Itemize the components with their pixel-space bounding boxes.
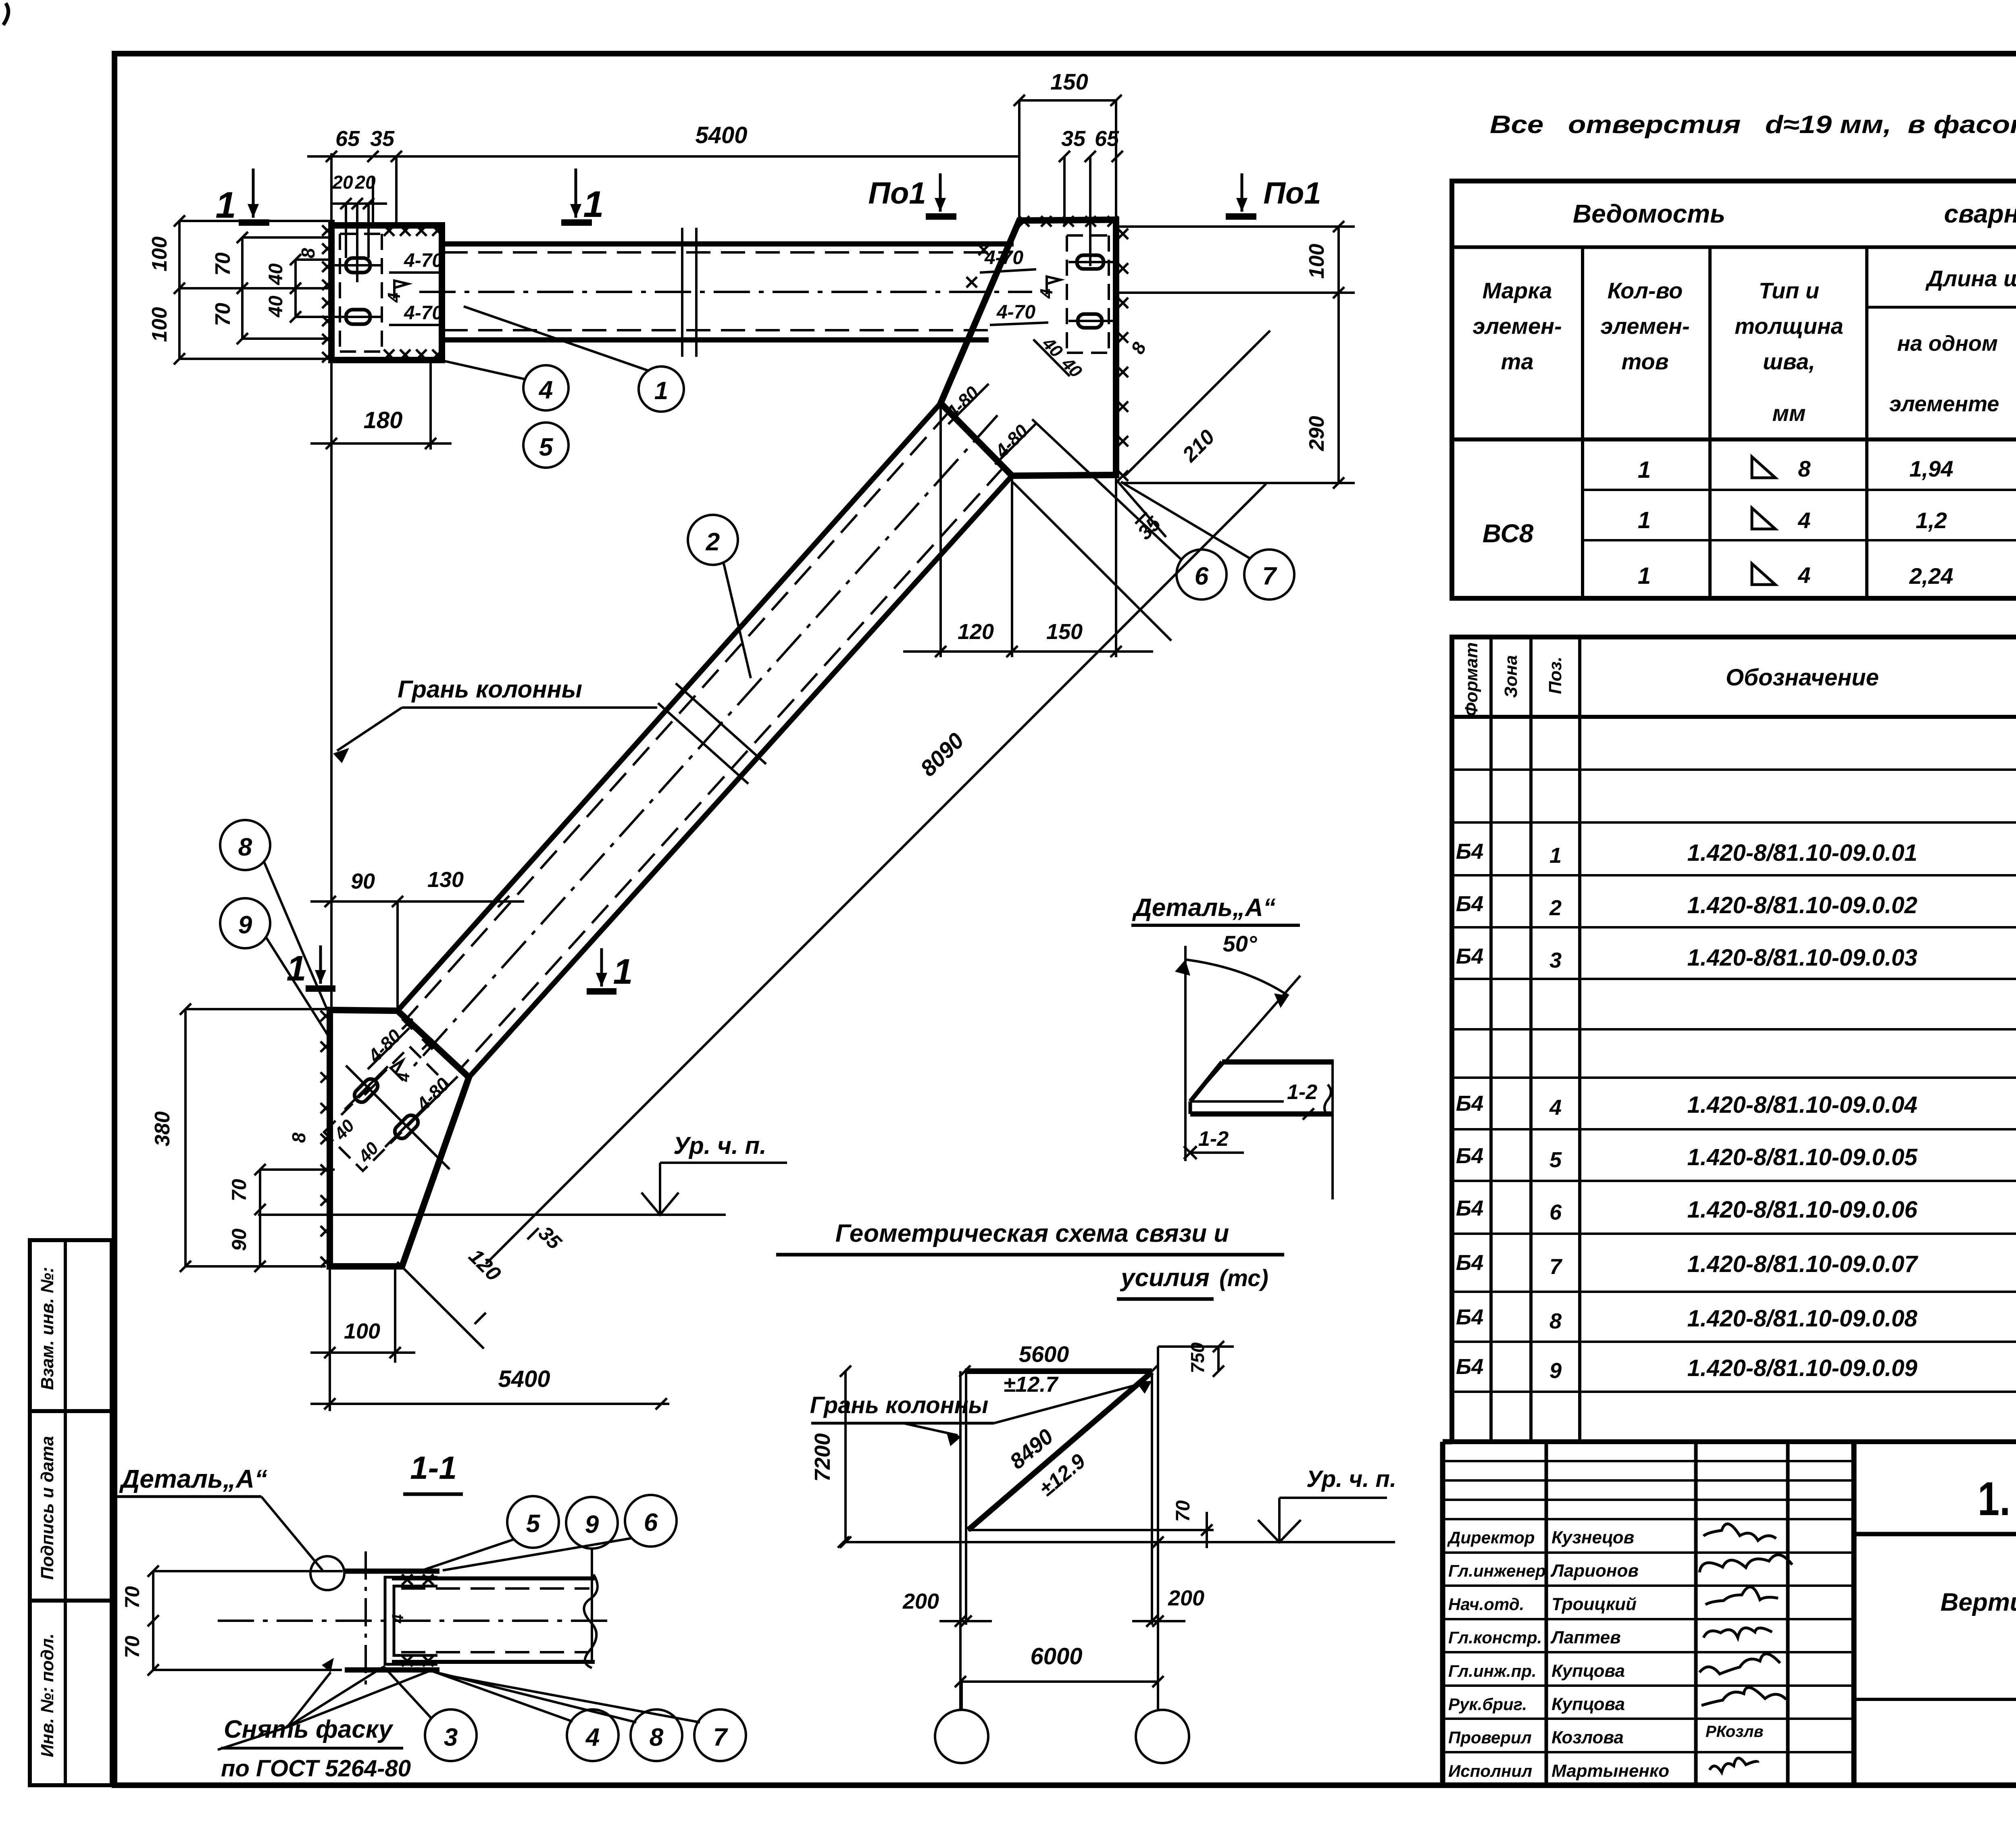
svg-text:90: 90 xyxy=(351,869,375,893)
diagonal member dashed walls xyxy=(406,411,950,1019)
svg-text:мм: мм xyxy=(1772,400,1806,426)
svg-text:4-70: 4-70 xyxy=(404,302,443,324)
svg-text:1: 1 xyxy=(287,948,306,988)
title block outer xyxy=(1443,1442,2016,1785)
detail A root line xyxy=(1184,1153,1187,1161)
column face extension line left xyxy=(330,153,333,1009)
svg-text:Зона: Зона xyxy=(1501,655,1521,698)
section callout circle 3 xyxy=(425,1709,477,1761)
svg-text:100: 100 xyxy=(1305,244,1329,279)
right gusset dashed channel outline xyxy=(1067,234,1109,237)
lower gusset dashed channel outline xyxy=(324,1047,448,1171)
weld marks on end plate xyxy=(322,225,333,236)
svg-text:6: 6 xyxy=(1549,1200,1562,1224)
svg-text:50°: 50° xyxy=(1223,931,1257,956)
weld symbol row1 xyxy=(1752,457,1775,478)
weld table title row line xyxy=(1452,246,2016,249)
svg-text:4: 4 xyxy=(1549,1095,1562,1120)
section 1-1 break mark xyxy=(584,1574,598,1668)
svg-text:Проверил: Проверил xyxy=(1448,1728,1532,1747)
dim 8090 along diagonal xyxy=(486,484,1266,1264)
svg-text:(тс): (тс) xyxy=(1219,1265,1268,1291)
scheme top chord xyxy=(965,1368,1152,1374)
svg-text:5: 5 xyxy=(539,433,554,461)
svg-text:380: 380 xyxy=(151,1112,174,1147)
scheme column lines right xyxy=(1151,1374,1153,1625)
svg-text:Б4: Б4 xyxy=(1456,1355,1483,1379)
end plate slotted holes xyxy=(346,258,370,273)
svg-text:шва,: шва, xyxy=(1763,349,1815,374)
doc number cell xyxy=(1854,1532,2016,1536)
diagonal member centerline xyxy=(412,415,998,1068)
svg-text:Инв. №: подл.: Инв. №: подл. xyxy=(37,1633,57,1757)
svg-text:Б4: Б4 xyxy=(1456,1196,1483,1220)
svg-text:Гл.констр.: Гл.констр. xyxy=(1448,1628,1542,1647)
svg-text:5400: 5400 xyxy=(695,122,747,148)
svg-text:1,2: 1,2 xyxy=(1916,508,1947,533)
section callout circle 5 xyxy=(507,1496,559,1548)
callout circle 6 xyxy=(1177,550,1227,600)
weld label 4 flag right xyxy=(1047,277,1060,294)
dim extension lines right gusset xyxy=(1117,225,1355,228)
end plate detail 4/5 xyxy=(331,225,442,360)
svg-text:4-70: 4-70 xyxy=(984,247,1023,269)
svg-text:1.420-8/81.10-09.0.03: 1.420-8/81.10-09.0.03 xyxy=(1687,945,1918,971)
member 1 centerline xyxy=(419,291,1032,293)
svg-text:1: 1 xyxy=(215,185,236,226)
svg-text:на одном: на одном xyxy=(1897,331,1998,356)
svg-text:По1: По1 xyxy=(1263,176,1321,210)
svg-text:6: 6 xyxy=(1195,562,1209,590)
weld label 4 flag lower xyxy=(391,1058,413,1080)
svg-text:20: 20 xyxy=(354,172,376,193)
svg-text:40: 40 xyxy=(265,296,287,318)
weld table row lines xyxy=(1583,489,2016,491)
svg-text:Все отверстия d≈19 мм, в: Все отверстия d≈19 мм, в фасонках овальн… xyxy=(1490,111,2016,139)
corner scan mark xyxy=(3,3,8,25)
svg-text:35: 35 xyxy=(1061,127,1086,151)
lower gusset slotted holes xyxy=(352,1076,381,1105)
dim 90 130 above lower gusset xyxy=(310,900,524,903)
svg-text:9: 9 xyxy=(238,911,252,939)
svg-text:толщина: толщина xyxy=(1735,313,1843,339)
svg-text:Троицкий: Троицкий xyxy=(1552,1594,1637,1614)
detail A dim 1-2 right xyxy=(1331,1060,1334,1199)
dim 100 below lower gusset xyxy=(329,1266,331,1363)
svg-text:100: 100 xyxy=(148,237,171,272)
dim 5400 bottom xyxy=(329,1363,331,1411)
dim 40 40 left side xyxy=(294,260,297,317)
svg-text:Длина шва , м: Длина шва , м xyxy=(1925,266,2016,291)
dim 210 diagonal xyxy=(1125,331,1270,476)
svg-text:Кузнецов: Кузнецов xyxy=(1552,1528,1634,1547)
dim 40 40 right gusset diagonal xyxy=(1033,339,1070,376)
svg-text:Исполнил: Исполнил xyxy=(1448,1761,1532,1780)
svg-text:3: 3 xyxy=(1549,948,1562,972)
dim 180 below end plate xyxy=(330,360,333,450)
svg-text:7200: 7200 xyxy=(810,1433,835,1482)
dim 70 lower gusset xyxy=(259,1170,261,1210)
callout circle 7 xyxy=(1244,550,1294,600)
callout circle 9 xyxy=(220,898,270,948)
right gusset slotted holes xyxy=(1077,255,1104,269)
svg-text:Б4: Б4 xyxy=(1456,944,1483,968)
svg-text:1: 1 xyxy=(654,377,668,405)
title block upper small rows xyxy=(1443,1460,1854,1462)
name cell line xyxy=(1854,1698,2016,1701)
svg-text:Б4: Б4 xyxy=(1456,1091,1483,1116)
section mark По1 right xyxy=(1226,213,1256,220)
деталь А leader2 on section xyxy=(218,1727,287,1750)
svg-text:Поз.: Поз. xyxy=(1545,656,1565,694)
svg-text:Гл.инженер: Гл.инженер xyxy=(1448,1561,1546,1580)
svg-text:5400: 5400 xyxy=(498,1366,550,1392)
weld table sub-header split xyxy=(1867,306,2016,309)
svg-text:Формат: Формат xyxy=(1462,642,1481,716)
callout circle 8 xyxy=(220,820,270,870)
svg-text:7: 7 xyxy=(1549,1255,1563,1279)
callout circle 5 xyxy=(523,423,569,468)
svg-text:Вертикальная связь: Вертикальная связь xyxy=(1941,1588,2016,1616)
svg-text:ВС8: ВС8 xyxy=(1483,519,1534,548)
section 1-1 tube walls xyxy=(392,1576,595,1580)
gusset plate 8/9 lower xyxy=(330,1010,469,1266)
svg-text:1.420-8/81.10-09.0.01: 1.420-8/81.10-09.0.01 xyxy=(1687,840,1918,866)
svg-text:элемен-: элемен- xyxy=(1472,313,1562,339)
svg-text:1-2: 1-2 xyxy=(1287,1080,1317,1104)
svg-text:Нач.отд.: Нач.отд. xyxy=(1448,1595,1524,1613)
svg-text:8: 8 xyxy=(238,833,252,861)
section callout circle 9 xyxy=(566,1497,618,1549)
svg-text:1: 1 xyxy=(1638,563,1651,589)
svg-text:65: 65 xyxy=(1095,127,1119,151)
svg-text:8: 8 xyxy=(1549,1309,1562,1333)
section 1-1 bottom plate xyxy=(345,1668,439,1673)
detail A drawing plate xyxy=(1222,1060,1334,1065)
svg-text:65: 65 xyxy=(335,127,360,151)
svg-text:6: 6 xyxy=(644,1509,658,1536)
svg-text:1.420-8/81.10-09.0.06: 1.420-8/81.10-09.0.06 xyxy=(1687,1197,1918,1223)
svg-text:4: 4 xyxy=(585,1724,600,1751)
svg-text:4: 4 xyxy=(1037,289,1056,299)
diagonal member 2 walls xyxy=(398,403,941,1011)
svg-text:20: 20 xyxy=(332,172,353,193)
weld table frame xyxy=(1452,181,2016,598)
dim 70 70 left side xyxy=(241,237,244,339)
svg-text:4-70: 4-70 xyxy=(404,250,443,271)
weld table header bottom line xyxy=(1452,437,2016,441)
svg-text:Б4: Б4 xyxy=(1456,839,1483,864)
svg-text:Кол-во: Кол-во xyxy=(1608,278,1683,303)
svg-text:Деталь„А“: Деталь„А“ xyxy=(119,1464,267,1493)
svg-text:8: 8 xyxy=(298,248,319,258)
right gusset corner extension diagonal xyxy=(1013,482,1171,641)
svg-text:5600: 5600 xyxy=(1019,1341,1069,1367)
svg-text:3: 3 xyxy=(444,1724,458,1751)
section 1-1 tube dashed walls xyxy=(401,1587,589,1590)
dim 120 150 below right gusset xyxy=(939,405,942,657)
svg-text:180: 180 xyxy=(364,407,403,433)
svg-text:по ГОСТ 5264-80: по ГОСТ 5264-80 xyxy=(221,1755,411,1782)
svg-text:та: та xyxy=(1501,349,1534,374)
svg-text:35: 35 xyxy=(370,127,395,151)
svg-text:4: 4 xyxy=(1797,562,1810,588)
section callout circle 6 xyxy=(625,1495,677,1547)
svg-text:70: 70 xyxy=(211,252,235,276)
svg-text:70: 70 xyxy=(121,1636,144,1658)
svg-text:1: 1 xyxy=(583,184,604,225)
svg-text:Гл.инж.пр.: Гл.инж.пр. xyxy=(1448,1661,1537,1680)
svg-text:тов: тов xyxy=(1621,349,1668,374)
svg-text:Взам. инв. №:: Взам. инв. №: xyxy=(37,1267,57,1390)
svg-text:150: 150 xyxy=(1046,620,1083,644)
scheme bottom level lines xyxy=(968,1529,1214,1531)
callout circle 4 xyxy=(523,365,569,410)
level line lower xyxy=(258,1214,726,1216)
svg-text:4-70: 4-70 xyxy=(996,302,1035,323)
callout circle 1 xyxy=(639,366,684,412)
svg-text:Ларионов: Ларионов xyxy=(1550,1561,1639,1581)
member 1 dashed inner walls xyxy=(444,251,1010,254)
end plate channel dashed outline xyxy=(340,233,382,235)
svg-text:Купцова: Купцова xyxy=(1552,1661,1625,1681)
weld marks on right gusset xyxy=(1019,216,1029,227)
svg-text:РКозлв: РКозлв xyxy=(1706,1723,1764,1740)
svg-text:элемен-: элемен- xyxy=(1600,313,1689,339)
svg-text:Обозначение: Обозначение xyxy=(1726,664,1879,691)
svg-text:8: 8 xyxy=(1798,456,1811,481)
svg-text:Подпись и дата: Подпись и дата xyxy=(37,1436,57,1580)
svg-text:8: 8 xyxy=(650,1724,664,1751)
dim 380 lower gusset xyxy=(184,1009,187,1266)
svg-text:Ведомость: Ведомость xyxy=(1573,199,1725,228)
scheme diagonal xyxy=(968,1372,1152,1530)
section 1-1 top plate xyxy=(345,1569,439,1574)
svg-text:1.420-8/81.10-09.0.02: 1.420-8/81.10-09.0.02 xyxy=(1687,892,1918,918)
svg-text:1. 4 2 0 — 8/8 1. 1 0 - 0 9. 0: 1. 4 2 0 — 8/8 1. 1 0 - 0 9. 0. 0 0 xyxy=(1978,1472,2016,1526)
dim 120 lower gusset xyxy=(397,1262,484,1349)
svg-text:70: 70 xyxy=(1173,1500,1194,1522)
left stamp boxes xyxy=(30,1240,112,1785)
section 1-1 weld marks xyxy=(402,1574,412,1585)
extension line from left plate right edge xyxy=(395,156,398,226)
svg-text:элементе: элементе xyxy=(1889,392,1999,416)
section callout circle 7 xyxy=(694,1709,746,1761)
dim 90 lower gusset xyxy=(259,1210,261,1266)
svg-text:сварных: сварных xyxy=(1944,199,2016,228)
scheme column lines left xyxy=(959,1371,962,1709)
svg-text:4: 4 xyxy=(1797,508,1810,533)
svg-text:Ур. ч. п.: Ур. ч. п. xyxy=(1306,1466,1396,1492)
section callout circle 8 xyxy=(631,1709,682,1761)
member 1 break marks xyxy=(681,228,683,357)
dim 100 100 left side xyxy=(178,221,181,359)
title block signature row lines xyxy=(1443,1551,1854,1554)
svg-text:Директор: Директор xyxy=(1447,1528,1535,1547)
svg-text:5: 5 xyxy=(526,1510,541,1538)
dim 40 40 lower gusset xyxy=(346,1066,450,1169)
svg-text:Ур. ч. п.: Ур. ч. п. xyxy=(673,1132,766,1159)
снять фаску leaders xyxy=(287,1672,331,1727)
svg-text:70: 70 xyxy=(228,1179,250,1201)
svg-text:4: 4 xyxy=(384,293,404,303)
member 1 tube 140x4 walls xyxy=(442,241,1014,247)
svg-text:290: 290 xyxy=(1305,416,1329,452)
svg-text:4: 4 xyxy=(395,1073,413,1082)
svg-text:1.420-8/81.10-09.0.07: 1.420-8/81.10-09.0.07 xyxy=(1687,1251,1919,1277)
svg-text:1-2: 1-2 xyxy=(1198,1127,1229,1151)
svg-text:Б4: Б4 xyxy=(1456,1144,1483,1168)
svg-text:1: 1 xyxy=(1549,843,1562,868)
scheme dim 7200 xyxy=(844,1371,847,1542)
weld symbol row2 xyxy=(1752,508,1775,529)
svg-text:6000: 6000 xyxy=(1030,1643,1082,1670)
weld symbol row3 xyxy=(1752,564,1775,585)
svg-text:Лаптев: Лаптев xyxy=(1550,1628,1621,1647)
svg-text:±12.7: ±12.7 xyxy=(1004,1372,1059,1397)
parts table row lines xyxy=(1452,768,2016,771)
svg-text:130: 130 xyxy=(427,868,464,892)
svg-text:4: 4 xyxy=(389,1614,407,1624)
svg-text:70: 70 xyxy=(211,303,235,326)
detail A circle on section xyxy=(310,1556,344,1590)
svg-text:Марка: Марка xyxy=(1483,278,1552,303)
svg-text:Рук.бриг.: Рук.бриг. xyxy=(1448,1695,1527,1714)
svg-text:1-1: 1-1 xyxy=(410,1450,457,1486)
svg-text:150: 150 xyxy=(1050,69,1088,94)
scheme column base circles xyxy=(935,1710,988,1763)
svg-text:200: 200 xyxy=(1168,1586,1204,1610)
svg-text:Тип и: Тип и xyxy=(1759,278,1819,303)
svg-text:120: 120 xyxy=(958,620,994,644)
section 1-1 channel xyxy=(385,1577,437,1664)
svg-text:9: 9 xyxy=(1549,1359,1562,1383)
scheme dim 750 xyxy=(1217,1347,1220,1371)
svg-text:5: 5 xyxy=(1549,1148,1562,1172)
svg-text:Купцова: Купцова xyxy=(1552,1695,1625,1714)
section dim 70 70 xyxy=(152,1571,154,1670)
svg-text:70: 70 xyxy=(121,1586,144,1609)
svg-text:По1: По1 xyxy=(868,176,926,210)
svg-text:100: 100 xyxy=(148,307,171,342)
detail A bevel construction lines xyxy=(1184,946,1187,1153)
svg-text:40: 40 xyxy=(265,263,287,285)
weld label 4 flag left xyxy=(394,281,408,298)
svg-text:200: 200 xyxy=(902,1589,939,1613)
svg-text:4: 4 xyxy=(538,376,553,404)
section 1-1 centerlines xyxy=(218,1620,609,1622)
parts table header bottom xyxy=(1452,715,2016,719)
weld table column lines xyxy=(1581,247,1584,598)
diagonal member break marks xyxy=(676,683,766,764)
dim 290 right side xyxy=(1337,293,1340,483)
svg-text:усилия: усилия xyxy=(1120,1264,1210,1292)
svg-text:2: 2 xyxy=(706,528,720,556)
svg-text:1.420-8/81.10-09.0.04: 1.420-8/81.10-09.0.04 xyxy=(1687,1092,1918,1118)
signature squiggles xyxy=(1704,1524,1776,1541)
svg-text:7: 7 xyxy=(713,1724,728,1751)
title block signature column lines xyxy=(1545,1442,1548,1785)
svg-text:Грань колонны: Грань колонны xyxy=(398,676,582,703)
gusset plate 6/7 right xyxy=(941,220,1116,476)
svg-text:1: 1 xyxy=(1638,457,1651,483)
svg-text:Б4: Б4 xyxy=(1456,892,1483,916)
weld marks on lower gusset xyxy=(321,1011,331,1021)
svg-text:2,24: 2,24 xyxy=(1909,563,1954,589)
svg-text:90: 90 xyxy=(228,1228,250,1251)
svg-text:1.420-8/81.10-09.0.08: 1.420-8/81.10-09.0.08 xyxy=(1687,1305,1918,1332)
svg-text:Б4: Б4 xyxy=(1456,1305,1483,1329)
svg-text:2: 2 xyxy=(1549,896,1562,920)
section callout circle 4 xyxy=(567,1709,619,1761)
svg-text:100: 100 xyxy=(344,1319,380,1343)
svg-text:Б4: Б4 xyxy=(1456,1251,1483,1275)
parts table column lines xyxy=(1489,637,1493,1442)
svg-text:Козлова: Козлова xyxy=(1552,1728,1624,1747)
parts table frame xyxy=(1452,637,2016,1442)
svg-text:1: 1 xyxy=(613,951,633,991)
svg-text:Геометрическая схема связ: Геометрическая схема связи и xyxy=(835,1220,1229,1247)
svg-text:Деталь„А“: Деталь„А“ xyxy=(1132,894,1276,922)
svg-text:Мартыненко: Мартыненко xyxy=(1552,1761,1669,1781)
svg-text:7: 7 xyxy=(1262,562,1277,590)
svg-text:1,94: 1,94 xyxy=(1910,456,1954,481)
callout circle 2 xyxy=(688,515,738,565)
svg-text:1: 1 xyxy=(1638,507,1651,533)
svg-text:8: 8 xyxy=(288,1133,309,1143)
dim 100 right side xyxy=(1337,227,1340,293)
svg-text:1.420-8/81.10-09.0.09: 1.420-8/81.10-09.0.09 xyxy=(1687,1355,1918,1381)
svg-text:1.420-8/81.10-09.0.05: 1.420-8/81.10-09.0.05 xyxy=(1687,1144,1918,1170)
svg-text:9: 9 xyxy=(585,1511,599,1538)
